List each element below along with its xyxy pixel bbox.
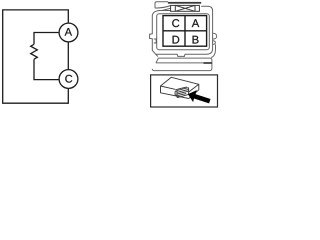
- wire A left to resistor top: [34, 33, 59, 45]
- terminal A: [59, 23, 78, 42]
- latch bevel diagonals: [155, 6, 170, 11]
- pin C label: [172, 19, 179, 27]
- terminal C: [59, 70, 78, 89]
- housing outer corner skirt: [211, 44, 215, 57]
- plug top edge line: [175, 87, 187, 90]
- pointer arrow: [188, 90, 211, 103]
- front top edge partial: [161, 86, 176, 89]
- pin A label: [192, 19, 199, 27]
- latch plate top-left edge: [155, 2, 168, 8]
- wire A-C vertical: [67, 42, 69, 70]
- wire loop: A top, up, left rail, bottom rail, up to C bottom: [3, 10, 69, 103]
- wire resistor bottom to C left: [34, 59, 59, 79]
- pin table grid: [163, 16, 207, 47]
- resistor: [31, 44, 38, 59]
- latch X-box: [171, 5, 200, 11]
- bracket plate under connector: [152, 58, 212, 71]
- housing left lock tab: [154, 39, 156, 43]
- 3D connector body: [161, 77, 199, 98]
- right face edges: [189, 84, 199, 98]
- latch top bar: [168, 2, 201, 4]
- plug grille: [177, 90, 188, 96]
- pin B label: [193, 36, 199, 44]
- pin D label: [173, 36, 180, 44]
- housing inner wall: [157, 14, 210, 50]
- plug tip step: [175, 91, 177, 96]
- connector housing outer shell: [150, 2, 217, 58]
- box around location view: [151, 75, 218, 107]
- body silhouette: [161, 77, 199, 98]
- housing right-side bumps: [213, 33, 217, 44]
- plug outline: [177, 88, 189, 98]
